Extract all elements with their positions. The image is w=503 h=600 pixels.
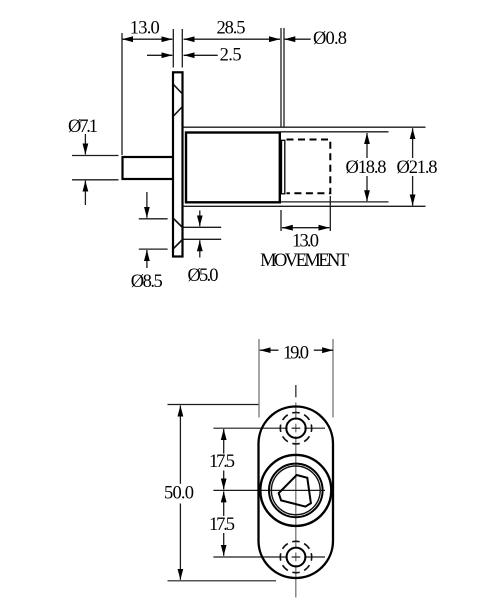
svg-text:17.5: 17.5 [209, 515, 235, 535]
svg-text:Ø8.5: Ø8.5 [131, 272, 163, 292]
svg-text:Ø21.8: Ø21.8 [397, 158, 438, 178]
svg-text:13.0: 13.0 [292, 232, 319, 252]
svg-text:28.5: 28.5 [217, 19, 246, 39]
svg-text:Ø7.1: Ø7.1 [68, 117, 98, 137]
svg-text:Ø18.8: Ø18.8 [346, 158, 387, 178]
svg-text:Ø5.0: Ø5.0 [188, 266, 219, 286]
svg-text:Ø0.8: Ø0.8 [313, 29, 347, 49]
svg-text:13.0: 13.0 [130, 19, 160, 39]
svg-text:2.5: 2.5 [220, 46, 242, 66]
svg-text:19.0: 19.0 [283, 344, 309, 364]
svg-text:MOVEMENT: MOVEMENT [260, 251, 349, 271]
svg-text:17.5: 17.5 [209, 452, 235, 472]
svg-text:50.0: 50.0 [164, 484, 194, 504]
